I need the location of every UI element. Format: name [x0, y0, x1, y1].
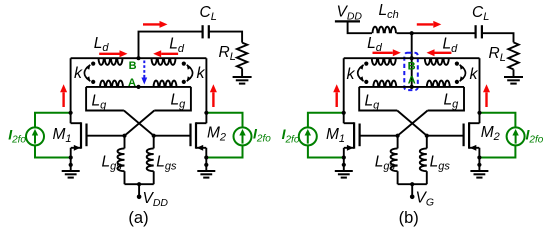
- wire: green top connection right source to M2 drain (b): [480, 113, 516, 128]
- transistor M1 (a): [71, 122, 81, 124]
- node A dot (a): [136, 85, 140, 89]
- wire: (a) cross diagonal from right L_g to M1 gate node: [125, 111, 155, 136]
- wire: green bottom connection right source to M2 source (b): [479, 145, 515, 157]
- svg-text:k: k: [74, 65, 83, 82]
- svg-text:Lgs: Lgs: [156, 153, 177, 172]
- svg-text:Ld: Ld: [169, 36, 185, 55]
- svg-text:A: A: [408, 75, 416, 87]
- wire: (b) cross diagonal from left L_g to M2 gate node: [397, 111, 427, 136]
- svg-text:(a): (a): [128, 209, 148, 227]
- svg-text:Lgs: Lgs: [375, 153, 396, 172]
- coupling dots left pair (b): [364, 62, 368, 66]
- wire: (a) R_L to ground: [241, 68, 243, 77]
- wire: (b) L_gs bottom joining wire: [398, 183, 427, 185]
- terminal dot V_G (b): [410, 195, 415, 200]
- transistor M2 (a): [196, 122, 206, 124]
- wire: green top connection left source to M1 drain (a): [35, 113, 71, 128]
- source junction dots M2 (a): [204, 155, 208, 159]
- wire: (a) output line from node B to C_L: [139, 32, 203, 59]
- svg-text:I2fo: I2fo: [282, 126, 300, 145]
- transistor M1 (b): [344, 122, 354, 124]
- svg-text:B: B: [408, 60, 416, 72]
- wire: (b) L_ch to C_L: [397, 32, 476, 34]
- node B dot (a): [136, 56, 140, 60]
- inductor L_gs right (b): [420, 148, 427, 171]
- ground below M1 (b): [335, 170, 353, 172]
- wire: (b) stem to V_G terminal: [411, 184, 413, 195]
- svg-text:M2: M2: [481, 124, 500, 143]
- inductor L_gs left (a): [118, 148, 125, 171]
- inductor L_d right (b): [425, 58, 449, 65]
- wire: (b) M2 gate wire: [427, 135, 464, 137]
- current source I_2fo right (a): [234, 127, 252, 145]
- wire: (a) C_L to R_L: [209, 32, 242, 43]
- svg-text:Lg: Lg: [171, 92, 187, 111]
- inductor L_gs right (a): [147, 148, 154, 171]
- wire: (a) left rail drain of M1: [70, 58, 72, 123]
- svg-text:VDD: VDD: [143, 190, 169, 209]
- inductor L_g top-left coil (a): [100, 81, 123, 87]
- red arrow up right rail (b): [485, 92, 487, 107]
- svg-text:k: k: [347, 66, 356, 83]
- svg-text:Lgs: Lgs: [430, 153, 451, 172]
- red current arrow on (b) top wire: [417, 23, 434, 25]
- svg-text:B: B: [129, 60, 137, 72]
- gate node dot left (a): [122, 134, 126, 138]
- svg-text:A: A: [128, 77, 136, 89]
- wire: (a) left L_gs vertical leads: [124, 136, 126, 149]
- coupling dots right pair (a): [182, 62, 186, 66]
- wire: (b) L_g row with coils: [359, 86, 464, 88]
- wire: (b) left L_gs vertical leads: [397, 136, 399, 149]
- blue dashed box around B and A (b): [404, 53, 418, 90]
- coupling k arc left (a): [84, 65, 90, 81]
- node A dot (b): [410, 85, 414, 89]
- wire: (b) L_g box left side and bottom: [359, 87, 397, 111]
- wire: (a) cross diagonal from left L_g to M2 gate node: [124, 111, 154, 136]
- ground below M1 (a): [62, 170, 80, 172]
- red arrow up left rail (b): [336, 92, 338, 107]
- wire: (b) right rail drain of M2: [479, 58, 481, 123]
- inductor L_d left (a): [99, 58, 123, 65]
- inductor L_g top-left coil (b): [373, 81, 396, 87]
- red arrow under right L_d (a): [161, 53, 178, 55]
- wire: (b) M2 source to ground: [478, 148, 480, 171]
- svg-text:Lch: Lch: [379, 2, 399, 21]
- node B dot (b): [410, 56, 414, 60]
- coupling k arc right (a): [187, 65, 193, 81]
- wire: (b) L_d row drain-to-drain with coils: [344, 57, 480, 59]
- wire: (a) right L_gs vertical leads: [153, 136, 155, 149]
- wire: (b) M1 source to ground: [343, 148, 345, 171]
- svg-text:VDD: VDD: [337, 4, 363, 23]
- wire: (b) V_DD to L_ch: [348, 21, 372, 33]
- svg-text:Ld: Ld: [367, 35, 383, 54]
- svg-text:VG: VG: [416, 190, 435, 209]
- wire: (a) L_g box right side and bottom: [154, 87, 191, 111]
- svg-text:(b): (b): [399, 209, 419, 227]
- gate node dot right (b): [425, 134, 429, 138]
- wire: green bottom connection left source to M1 source (b): [308, 145, 344, 157]
- coupling k arc right (b): [460, 65, 466, 81]
- wire: (a) M2 gate wire: [154, 135, 191, 137]
- drain junction dot M1 (a): [69, 111, 73, 115]
- terminal dot V_DD (a): [137, 195, 142, 200]
- drain junction dot M2 (b): [477, 111, 481, 115]
- svg-text:Ld: Ld: [94, 35, 110, 54]
- source junction dot M1 (b): [342, 155, 346, 159]
- wire: green top connection right source to M2 drain (a): [206, 113, 242, 128]
- svg-text:Lg: Lg: [365, 93, 381, 112]
- svg-text:I2fo: I2fo: [8, 126, 26, 145]
- red current arrow on (a) output wire: [143, 23, 160, 25]
- ground below R_L (a): [233, 76, 252, 78]
- wire: (a) L_d row drain-to-drain with coils: [71, 57, 207, 59]
- svg-text:I2fo: I2fo: [526, 126, 544, 145]
- inductor L_d left (b): [372, 58, 396, 65]
- wire: (b) cross diagonal from right L_g to M1 gate node: [398, 111, 428, 136]
- wire: (a) M1 source to ground: [70, 148, 72, 171]
- wire: (b) center vertical from top node through B to A: [411, 33, 413, 87]
- ground below M2 (b): [470, 170, 488, 172]
- current source I_2fo right (b): [507, 127, 525, 145]
- red arrow under left L_d (a): [99, 53, 119, 55]
- coupling dots left pair (a): [91, 62, 95, 66]
- node dot top (b): [410, 31, 414, 35]
- wire: (b) right L_gs vertical leads: [426, 136, 428, 149]
- svg-text:M1: M1: [326, 126, 345, 145]
- red arrow up left rail (a): [62, 92, 64, 107]
- current source I_2fo left (a): [26, 127, 44, 145]
- wire: green top connection left source to M1 drain (b): [308, 113, 344, 128]
- supply bar V_DD (b): [335, 20, 360, 22]
- svg-text:CL: CL: [200, 4, 217, 23]
- svg-text:Lg: Lg: [444, 92, 460, 111]
- wire: (b) C_L to R_L: [482, 33, 514, 42]
- svg-text:M1: M1: [53, 126, 72, 145]
- wire: (b) left rail drain of M1: [343, 58, 345, 123]
- source junction dot M2 (b): [477, 155, 481, 159]
- junction dot V_G stem (b): [410, 182, 414, 186]
- blue dashed arrow from B to A (a): [143, 61, 145, 78]
- coupling dots right pair (b): [455, 62, 459, 66]
- wire: (b) M1 gate wire: [360, 135, 398, 137]
- capacitor C_L (b): [475, 25, 477, 38]
- svg-text:I2fo: I2fo: [253, 126, 271, 145]
- wire: green bottom connection right source to M2 source (a): [206, 145, 242, 157]
- inductor L_gs left (b): [391, 148, 398, 171]
- wire: (b) L_g box right side and bottom: [428, 87, 464, 111]
- gate node dot right (a): [152, 134, 156, 138]
- source junction dots M1 (a): [69, 155, 73, 159]
- wire: (b) R_L to ground: [513, 69, 515, 77]
- junction dot V_DD stem (a): [137, 182, 141, 186]
- inductor L_g top-right coil (b): [427, 81, 450, 87]
- wire: (a) L_g row with coils: [86, 86, 191, 88]
- svg-text:k: k: [470, 66, 479, 83]
- svg-text:Lg: Lg: [92, 93, 108, 112]
- svg-text:k: k: [197, 65, 206, 82]
- inductor L_d right (a): [152, 58, 176, 65]
- drain junction dot M1 (b): [342, 111, 346, 115]
- drain junction dot M2 (a): [204, 111, 208, 115]
- svg-text:RL: RL: [489, 45, 506, 64]
- wire: (a) stem to V_DD terminal: [138, 184, 140, 195]
- svg-text:M2: M2: [207, 125, 226, 144]
- wire: (a) M2 source to ground: [205, 148, 207, 171]
- svg-text:RL: RL: [219, 44, 236, 63]
- ground below M2 (a): [197, 170, 215, 172]
- red arrow up right rail (a): [212, 92, 214, 107]
- gate node dot left (b): [396, 134, 400, 138]
- red arrow under right L_d (b): [435, 52, 452, 54]
- current source I_2fo left (b): [299, 127, 317, 145]
- resistor R_L (b): [508, 42, 518, 69]
- resistor R_L (a): [237, 43, 247, 69]
- red arrow under left L_d (b): [373, 52, 393, 54]
- inductor L_ch (b): [373, 27, 396, 34]
- coupling k arc left (b): [358, 65, 364, 81]
- transistor M2 (b): [469, 122, 479, 124]
- wire: (a) L_gs bottom joining wire: [125, 183, 154, 185]
- wire: (a) right rail drain of M2: [205, 58, 207, 123]
- inductor L_g top-right coil (a): [154, 81, 177, 87]
- wire: (a) M1 gate wire: [87, 135, 125, 137]
- wire: green bottom connection left source to M1 source (a): [35, 145, 71, 157]
- ground below R_L (b): [504, 76, 523, 78]
- capacitor C_L (a): [202, 25, 204, 38]
- wire: (a) L_g box left side and bottom: [86, 87, 124, 111]
- svg-text:CL: CL: [472, 4, 489, 23]
